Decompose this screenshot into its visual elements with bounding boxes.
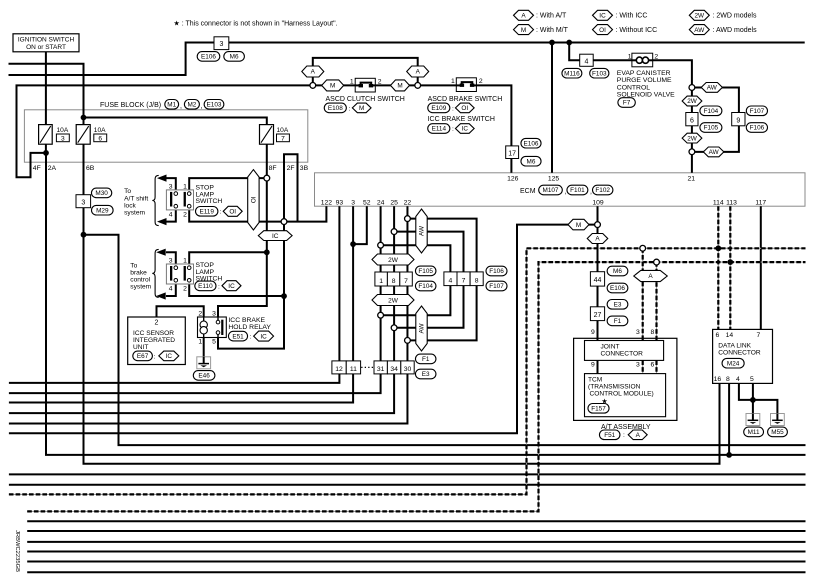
- svg-text:3: 3: [219, 41, 223, 48]
- svg-text:F7: F7: [623, 100, 631, 107]
- svg-text:M11: M11: [748, 429, 760, 436]
- svg-text:IC: IC: [166, 353, 173, 360]
- svg-text:4: 4: [584, 58, 588, 65]
- svg-text:M: M: [521, 27, 526, 34]
- svg-text:F106: F106: [489, 268, 504, 275]
- svg-text:CONNECTOR: CONNECTOR: [601, 351, 644, 358]
- svg-text:E46: E46: [198, 373, 210, 380]
- svg-text:6: 6: [690, 117, 694, 124]
- svg-text:25: 25: [390, 200, 398, 207]
- svg-text:CONNECTOR: CONNECTOR: [718, 350, 761, 357]
- svg-text:brake: brake: [130, 269, 147, 276]
- svg-text:To: To: [130, 262, 137, 269]
- svg-text:1: 1: [198, 339, 202, 346]
- svg-text:M24: M24: [727, 360, 740, 367]
- svg-text:M1: M1: [167, 102, 176, 109]
- svg-text:9: 9: [591, 329, 595, 336]
- svg-text:IC: IC: [599, 13, 606, 20]
- svg-text:F107: F107: [489, 283, 504, 290]
- svg-text:12: 12: [335, 366, 343, 373]
- svg-text:OI: OI: [461, 105, 468, 112]
- svg-text:E110: E110: [198, 283, 213, 290]
- svg-text:E51: E51: [232, 333, 244, 340]
- svg-text:2: 2: [183, 212, 187, 219]
- svg-text:To: To: [124, 188, 131, 195]
- svg-text:OI: OI: [229, 209, 236, 216]
- svg-text:control: control: [130, 277, 150, 284]
- svg-text:8: 8: [392, 278, 396, 285]
- svg-text:125: 125: [548, 175, 560, 182]
- svg-text:M: M: [576, 222, 581, 229]
- svg-text:E3: E3: [422, 371, 430, 378]
- svg-text:lock: lock: [124, 202, 136, 209]
- svg-text:A: A: [311, 69, 316, 76]
- svg-text:,: ,: [201, 103, 203, 110]
- svg-text:AW: AW: [709, 149, 720, 156]
- svg-text:ICC BRAKE SWITCH: ICC BRAKE SWITCH: [428, 116, 495, 123]
- svg-text:3: 3: [636, 329, 640, 336]
- svg-text:E103: E103: [207, 102, 222, 109]
- svg-text:4: 4: [169, 212, 173, 219]
- svg-text:: AWD models: : AWD models: [713, 27, 758, 34]
- svg-text:,: ,: [180, 103, 182, 110]
- svg-text:(TRANSMISSION: (TRANSMISSION: [588, 383, 641, 390]
- svg-text:EVAP CANISTER: EVAP CANISTER: [617, 70, 671, 77]
- svg-text:93: 93: [336, 200, 344, 207]
- svg-text:IC: IC: [462, 126, 469, 133]
- svg-text:14: 14: [726, 332, 734, 339]
- svg-text:1: 1: [379, 278, 383, 285]
- svg-text:F101: F101: [570, 187, 585, 194]
- svg-text:ICC SENSOR: ICC SENSOR: [133, 330, 174, 337]
- svg-text:F1: F1: [614, 318, 622, 325]
- svg-text:7: 7: [404, 278, 408, 285]
- svg-text:: 2WD models: : 2WD models: [713, 13, 757, 20]
- svg-text:8: 8: [651, 329, 655, 336]
- svg-text:8: 8: [726, 376, 730, 383]
- svg-text:F105: F105: [418, 268, 433, 275]
- svg-text:3: 3: [351, 200, 355, 207]
- svg-text:3: 3: [636, 362, 640, 369]
- svg-text:F157: F157: [591, 406, 606, 413]
- svg-text:3: 3: [212, 311, 216, 318]
- svg-text:F106: F106: [750, 125, 765, 132]
- svg-text:IGNITION SWITCH: IGNITION SWITCH: [18, 36, 75, 43]
- svg-text:F104: F104: [704, 108, 719, 115]
- svg-text:24: 24: [377, 200, 385, 207]
- svg-text:2W: 2W: [388, 297, 399, 304]
- svg-text:A: A: [648, 273, 653, 280]
- svg-text:1: 1: [451, 78, 455, 85]
- svg-text:31: 31: [377, 366, 385, 373]
- svg-text:5: 5: [750, 376, 754, 383]
- svg-text::: :: [452, 105, 454, 112]
- svg-text:2W: 2W: [695, 13, 706, 20]
- svg-text:9: 9: [736, 117, 740, 124]
- svg-text:IC: IC: [228, 283, 235, 290]
- svg-text:4F: 4F: [33, 165, 41, 172]
- svg-text:1: 1: [628, 53, 632, 60]
- svg-text:11: 11: [350, 366, 357, 373]
- svg-text:52: 52: [363, 200, 371, 207]
- svg-text:10A: 10A: [94, 127, 106, 134]
- svg-text:114: 114: [713, 200, 724, 207]
- svg-text:113: 113: [726, 200, 737, 207]
- svg-text:M6: M6: [527, 158, 536, 165]
- svg-text:6: 6: [98, 135, 102, 142]
- svg-text:AW: AW: [694, 27, 705, 34]
- svg-text:1: 1: [183, 257, 187, 264]
- svg-text:SWITCH: SWITCH: [196, 198, 223, 205]
- svg-text:3: 3: [81, 199, 85, 206]
- svg-text:AW: AW: [419, 225, 426, 236]
- svg-text:117: 117: [755, 200, 766, 207]
- svg-text:: Without ICC: : Without ICC: [616, 27, 658, 34]
- svg-text:3: 3: [61, 135, 65, 142]
- svg-text:ICC BRAKE: ICC BRAKE: [228, 317, 265, 324]
- svg-text:ASCD CLUTCH SWITCH: ASCD CLUTCH SWITCH: [326, 96, 405, 103]
- svg-text:F104: F104: [418, 283, 433, 290]
- svg-text:JOINT: JOINT: [601, 344, 620, 351]
- svg-text:2: 2: [479, 78, 483, 85]
- svg-text:30: 30: [404, 366, 412, 373]
- svg-text:E67: E67: [137, 353, 149, 360]
- svg-text:: With A/T: : With A/T: [536, 13, 567, 20]
- svg-text:3: 3: [169, 183, 173, 190]
- svg-text:,: ,: [565, 189, 567, 196]
- svg-text::: :: [250, 334, 252, 341]
- svg-text:7: 7: [462, 278, 466, 285]
- svg-text:JRBWC2235GB: JRBWC2235GB: [14, 530, 20, 572]
- svg-text:E106: E106: [610, 285, 625, 292]
- svg-text:AW: AW: [707, 85, 718, 92]
- svg-text:4: 4: [449, 278, 453, 285]
- svg-text:2: 2: [378, 78, 382, 85]
- svg-text:4: 4: [169, 286, 173, 293]
- svg-text:F105: F105: [704, 125, 719, 132]
- svg-text:8: 8: [475, 278, 479, 285]
- svg-text:2W: 2W: [388, 257, 399, 264]
- svg-text:★ : This connector is not show: ★ : This connector is not shown in "Harn…: [174, 19, 338, 27]
- svg-text:3B: 3B: [300, 165, 309, 172]
- svg-text:PURGE VOLUME: PURGE VOLUME: [617, 77, 672, 84]
- svg-text:A/T shift: A/T shift: [124, 195, 148, 202]
- svg-text:M55: M55: [771, 429, 784, 436]
- svg-text::: :: [218, 283, 220, 290]
- svg-text:M: M: [330, 83, 335, 90]
- svg-text:7: 7: [281, 135, 285, 142]
- svg-text:HOLD RELAY: HOLD RELAY: [228, 324, 271, 331]
- svg-text:E109: E109: [431, 105, 446, 112]
- svg-text:AW: AW: [419, 323, 426, 334]
- svg-text:5: 5: [212, 339, 216, 346]
- svg-text::: :: [623, 432, 625, 439]
- svg-text:A: A: [521, 13, 526, 20]
- svg-text:M30: M30: [95, 190, 108, 197]
- svg-text:M6: M6: [230, 54, 239, 61]
- svg-text:122: 122: [321, 200, 333, 207]
- svg-text:17: 17: [508, 150, 516, 157]
- svg-text:7: 7: [757, 332, 761, 339]
- svg-text:OI: OI: [251, 196, 258, 203]
- svg-text:109: 109: [592, 200, 604, 207]
- svg-text:2W: 2W: [687, 135, 698, 142]
- svg-text::: :: [452, 126, 454, 133]
- svg-text:21: 21: [688, 175, 696, 182]
- svg-text:8F: 8F: [269, 165, 277, 172]
- svg-text:F51: F51: [604, 432, 615, 439]
- svg-text:2F: 2F: [287, 165, 295, 172]
- svg-text:10A: 10A: [57, 127, 69, 134]
- svg-text:FUSE BLOCK (J/B): FUSE BLOCK (J/B): [100, 102, 161, 109]
- svg-text:ASCD BRAKE SWITCH: ASCD BRAKE SWITCH: [428, 96, 503, 103]
- svg-text:: With M/T: : With M/T: [536, 27, 569, 34]
- svg-text:2: 2: [183, 286, 187, 293]
- svg-text:M6: M6: [613, 268, 622, 275]
- svg-text:4: 4: [736, 376, 740, 383]
- svg-text:F107: F107: [750, 108, 765, 115]
- svg-text:2: 2: [155, 320, 159, 327]
- svg-text:,: ,: [590, 189, 592, 196]
- svg-text:: With ICC: : With ICC: [616, 13, 648, 20]
- svg-text:F103: F103: [592, 70, 607, 77]
- svg-text:E3: E3: [614, 302, 622, 309]
- svg-text:F1: F1: [422, 356, 430, 363]
- svg-text:22: 22: [404, 200, 412, 207]
- svg-text:IC: IC: [272, 233, 279, 240]
- svg-text:M: M: [359, 105, 364, 112]
- svg-text:34: 34: [390, 366, 398, 373]
- svg-text::: :: [154, 353, 156, 360]
- svg-text:6B: 6B: [86, 165, 95, 172]
- svg-text:1: 1: [350, 78, 354, 85]
- svg-text:system: system: [130, 284, 151, 291]
- svg-text:DATA LINK: DATA LINK: [718, 343, 751, 350]
- svg-text:CONTROL: CONTROL: [617, 84, 650, 91]
- svg-text:6: 6: [651, 362, 655, 369]
- svg-text:F102: F102: [595, 187, 610, 194]
- svg-text:ECM: ECM: [520, 188, 536, 195]
- svg-text:M107: M107: [543, 187, 559, 194]
- svg-text:M116: M116: [564, 70, 580, 77]
- svg-text:9: 9: [591, 362, 595, 369]
- svg-text:UNIT: UNIT: [133, 344, 148, 351]
- svg-text:10A: 10A: [277, 127, 289, 134]
- svg-text:6: 6: [716, 332, 720, 339]
- svg-text::: :: [220, 209, 222, 216]
- svg-text:E114: E114: [432, 126, 447, 133]
- svg-text:ON or START: ON or START: [26, 44, 66, 51]
- svg-text:A: A: [636, 432, 641, 439]
- svg-text:3: 3: [169, 257, 173, 264]
- svg-text:44: 44: [594, 277, 602, 284]
- svg-text:INTEGRATED: INTEGRATED: [133, 337, 175, 344]
- svg-text:M29: M29: [96, 207, 109, 214]
- svg-text:E106: E106: [201, 54, 216, 61]
- svg-text:A: A: [595, 236, 600, 243]
- svg-text:A: A: [416, 69, 421, 76]
- svg-text:system: system: [124, 210, 145, 217]
- svg-text:M2: M2: [187, 102, 196, 109]
- svg-text::: :: [349, 105, 351, 112]
- svg-text:2W: 2W: [687, 98, 698, 105]
- svg-text:CONTROL MODULE): CONTROL MODULE): [590, 390, 654, 397]
- svg-text:E108: E108: [328, 105, 343, 112]
- svg-text:E119: E119: [199, 209, 214, 216]
- svg-text:27: 27: [594, 312, 602, 319]
- svg-text:OI: OI: [599, 27, 606, 34]
- svg-text:16: 16: [714, 376, 722, 383]
- svg-text:1: 1: [183, 183, 187, 190]
- svg-text:2: 2: [198, 311, 202, 318]
- svg-text:E106: E106: [524, 140, 539, 147]
- svg-text:2A: 2A: [48, 165, 57, 172]
- svg-text:TCM: TCM: [588, 376, 602, 383]
- svg-text:2: 2: [654, 53, 658, 60]
- svg-text:M: M: [397, 83, 402, 90]
- svg-text:IC: IC: [260, 333, 267, 340]
- svg-text:126: 126: [507, 175, 519, 182]
